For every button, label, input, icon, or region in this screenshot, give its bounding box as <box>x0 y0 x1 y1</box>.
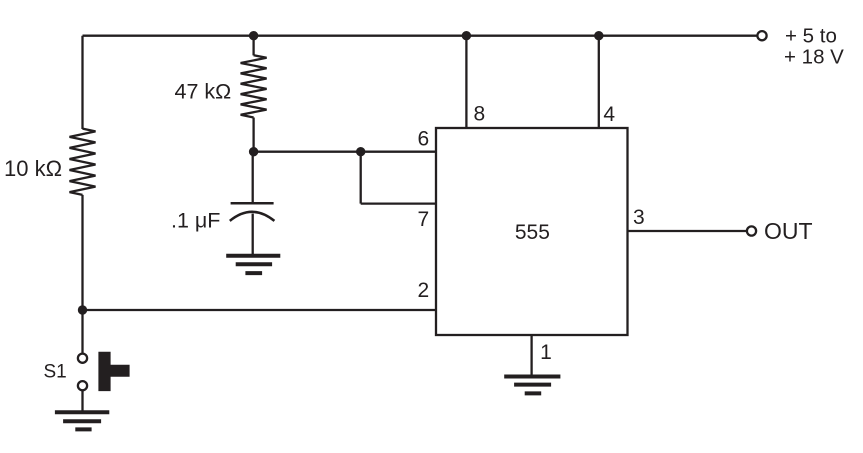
svg-text:OUT: OUT <box>764 218 813 244</box>
wire pin 6 horizontal <box>254 151 436 153</box>
wire branch down to pin 7 level <box>360 152 362 204</box>
terminal OUT <box>747 226 756 235</box>
wire rail to R2 <box>252 36 254 56</box>
capacitor C1 top plate <box>231 202 274 205</box>
resistor R 10k <box>70 129 96 195</box>
wire top supply rail <box>83 35 758 37</box>
wire pin 3 output <box>628 230 747 232</box>
wire C1 to ground <box>252 214 254 256</box>
wire pin 8 vertical <box>465 36 467 128</box>
node junction rail-pin4 <box>594 31 603 40</box>
svg-text:8: 8 <box>473 103 485 126</box>
svg-text:S1: S1 <box>44 362 67 383</box>
terminal +V <box>757 31 766 40</box>
svg-text:2: 2 <box>417 279 429 302</box>
svg-text:1: 1 <box>540 341 552 364</box>
capacitor C1 curved plate <box>230 212 275 221</box>
svg-text:+ 5 to: + 5 to <box>785 25 837 48</box>
svg-text:.1 μF: .1 μF <box>171 209 220 233</box>
node A junction R2/C1/pin6 <box>249 147 258 156</box>
node junction pin2-left <box>78 305 87 314</box>
wire pin 2 horizontal <box>83 309 437 311</box>
wire node A down to C1 <box>252 152 254 204</box>
ground below S1 <box>55 412 109 429</box>
svg-text:7: 7 <box>417 208 429 231</box>
wire R1 bottom to node pin2 <box>81 195 83 310</box>
wire pin 4 vertical <box>598 36 600 128</box>
wire pin 1 vertical <box>530 335 532 375</box>
svg-text:47 kΩ: 47 kΩ <box>175 80 232 104</box>
svg-text:+ 18 V: + 18 V <box>784 46 844 69</box>
wire left vertical from rail to R1 <box>81 36 83 129</box>
op-amp style IC box U1 555 <box>436 128 628 335</box>
node junction pin7 branch <box>356 147 365 156</box>
svg-text:6: 6 <box>417 128 429 151</box>
svg-text:10 kΩ: 10 kΩ <box>4 156 62 181</box>
ground below C1 <box>226 256 280 273</box>
node junction rail-pin8 <box>462 31 471 40</box>
svg-text:555: 555 <box>515 221 550 244</box>
ground below pin 1 <box>504 377 560 394</box>
resistor R 47k <box>241 55 267 117</box>
svg-text:3: 3 <box>633 206 645 229</box>
node junction rail-R2 <box>249 31 258 40</box>
switch S1 pushbutton <box>78 352 130 391</box>
wire S1 to ground <box>81 390 83 412</box>
wire node to switch <box>81 310 83 353</box>
wire R2 bottom to node A <box>252 118 254 152</box>
svg-text:4: 4 <box>603 103 615 126</box>
wire pin 7 horizontal <box>361 202 436 204</box>
